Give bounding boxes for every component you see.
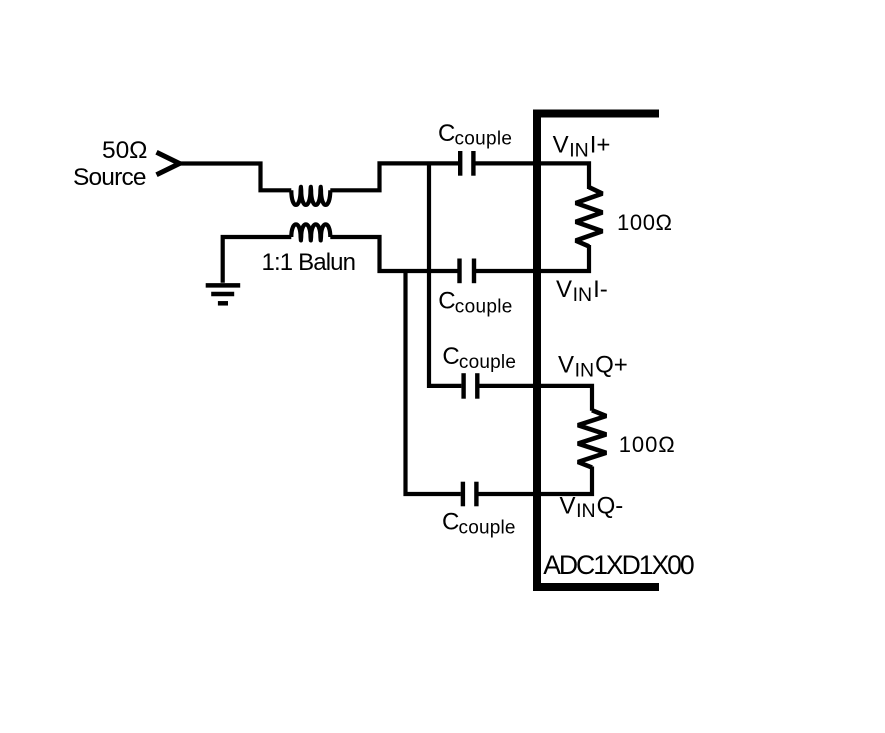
label 50ohm Source [73,137,148,191]
label Ccouple 4 [442,509,516,539]
label Ccouple 1 [438,120,512,150]
svg-text:Q+: Q+ [595,351,628,378]
svg-text:couple: couple [459,352,516,373]
capacitor C2 Ccouple (I- row) [460,259,475,284]
source arrow [157,152,180,174]
capacitor C1 Ccouple (I+ row) [460,151,473,176]
svg-text:IN: IN [573,284,593,306]
label VIN Q- [560,492,624,522]
capacitor C4 Ccouple (Q- row) [463,482,477,507]
label Ccouple 3 [442,343,516,373]
ground [206,285,241,303]
label VIN Q+ [558,351,628,381]
svg-text:ADC1XD1X00: ADC1XD1X00 [543,550,695,580]
capacitor C3 Ccouple (Q+ row) [464,373,478,399]
svg-text:1:1 Balun: 1:1 Balun [262,249,357,276]
wire resistor R2 bottom to Q- row [479,467,593,495]
svg-text:V: V [560,492,576,519]
svg-text:C: C [442,343,459,370]
svg-text:V: V [556,276,572,303]
svg-text:Source: Source [73,164,147,191]
wire L1 right to cap C1 [330,163,458,190]
label Ccouple 2 [438,288,512,318]
svg-text:C: C [438,120,455,147]
svg-text:couple: couple [455,129,513,150]
wire L2 right to cap C2 (VIN I- row) [330,237,457,271]
svg-text:V: V [553,132,569,159]
label VIN I+ [553,132,611,162]
svg-text:100Ω: 100Ω [619,432,675,457]
svg-text:IN: IN [576,500,596,522]
svg-text:Q-: Q- [597,492,624,519]
svg-text:V: V [558,351,574,378]
inductor L2 bottom winding of balun [291,224,330,240]
svg-text:IN: IN [575,359,595,381]
resistor R2 100ohm [578,410,606,467]
svg-text:C: C [438,288,455,315]
label VIN I- [556,276,608,306]
wire C3 to VIN Q+ pin and resistor R2 top [479,386,592,411]
wire dropper to Q+ row [429,163,461,386]
svg-text:100Ω: 100Ω [617,210,672,235]
wire L2 left to ground [223,237,292,283]
inductor L1 top winding of balun [291,187,330,205]
svg-text:I+: I+ [590,132,611,159]
wire dropper to Q- row [406,271,461,494]
wire resistor bottom to I- row [476,245,589,271]
svg-text:couple: couple [459,517,516,538]
svg-text:I-: I- [593,276,608,303]
svg-text:C: C [442,509,459,536]
wire C1 to VIN I+ pin and resistor top [475,163,589,189]
svg-text:IN: IN [569,140,589,162]
svg-text:50Ω: 50Ω [102,137,148,164]
wire source to balun primary [179,164,291,191]
resistor R1 100ohm [576,187,603,246]
ADC outline thick bracket [537,114,659,588]
svg-text:couple: couple [455,296,513,317]
